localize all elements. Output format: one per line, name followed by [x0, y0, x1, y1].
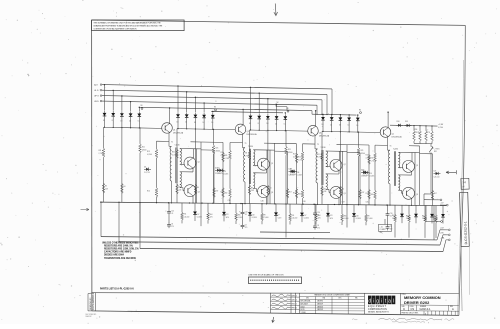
svg-text:T1: T1 [245, 143, 247, 145]
svg-text:CL1,750: CL1,750 [144, 172, 150, 174]
svg-text:C4,D50: C4,D50 [304, 218, 309, 220]
svg-text:R68: R68 [433, 216, 436, 218]
svg-text:1N3209: 1N3209 [317, 309, 323, 311]
svg-text:D5: D5 [211, 122, 213, 124]
svg-text:C68: C68 [179, 189, 182, 191]
svg-text:DEC3009: DEC3009 [301, 304, 308, 306]
svg-text:R21: R21 [216, 148, 219, 150]
svg-text:R11: R11 [292, 215, 295, 217]
svg-text:TRANSISTOR & DIODE CONVERSION: TRANSISTOR & DIODE CONVERSION CHART [314, 294, 350, 297]
svg-text:C,7000: C,7000 [99, 153, 104, 155]
svg-text:D664: D664 [301, 306, 305, 308]
svg-text:CL1,750: CL1,750 [218, 173, 224, 175]
svg-text:8: 8 [400, 176, 401, 178]
svg-text:R60: R60 [225, 193, 228, 195]
svg-text:TRANSISTORS ARE DEC3009: TRANSISTORS ARE DEC3009 [104, 257, 137, 260]
svg-text:8: 8 [181, 173, 182, 175]
svg-text:C8u: C8u [366, 202, 369, 204]
svg-text:D-CS-G202-0-1: D-CS-G202-0-1 [92, 292, 95, 310]
svg-text:D3: D3 [339, 125, 341, 127]
svg-text:Q3: Q3 [416, 194, 418, 196]
svg-text:T-2030: T-2030 [301, 312, 306, 314]
svg-text:4,7000: 4,7000 [438, 127, 443, 129]
svg-text:R17: R17 [216, 190, 219, 192]
svg-text:47000: 47000 [288, 152, 293, 154]
svg-text:2N2894: 2N2894 [317, 301, 323, 303]
svg-text:C68: C68 [324, 191, 327, 193]
svg-text:4,7000: 4,7000 [221, 155, 226, 157]
svg-text:47000: 47000 [216, 151, 221, 153]
svg-text:R13: R13 [221, 152, 224, 154]
svg-text:R9: R9 [264, 215, 266, 217]
svg-text:R11: R11 [184, 214, 187, 216]
svg-text:D17: D17 [197, 214, 200, 216]
svg-text:R16: R16 [297, 172, 300, 174]
svg-text:C11,000: C11,000 [184, 216, 190, 218]
svg-text:D7: D7 [278, 215, 280, 217]
svg-text:C4,000: C4,000 [238, 217, 243, 219]
svg-text:D17: D17 [304, 215, 307, 217]
svg-text:R56: R56 [415, 129, 418, 131]
svg-text:C,7000: C,7000 [317, 157, 322, 159]
svg-text:D5: D5 [284, 123, 286, 125]
svg-text:Q3: Q3 [344, 193, 346, 195]
svg-text:C9: C9 [245, 224, 247, 226]
svg-text:47000: 47000 [361, 153, 366, 155]
svg-text:4S D: 4S D [94, 101, 99, 103]
svg-text:PARTS LIST IS A-PL-G202-0-0: PARTS LIST IS A-PL-G202-0-0 [100, 287, 134, 290]
svg-text:R60: R60 [298, 193, 301, 195]
svg-text:C1,D6X: C1,D6X [223, 174, 228, 176]
svg-text:D23: D23 [330, 215, 333, 217]
svg-text:C4,000: C4,000 [344, 218, 349, 220]
svg-text:DRN: DRN [292, 295, 295, 297]
svg-text:R66: R66 [238, 214, 241, 216]
svg-text:C9: C9 [317, 225, 319, 227]
svg-text:RESISTORS ARE 1/2W, 10W, C%: RESISTORS ARE 1/2W, 10W, C% [104, 248, 139, 251]
svg-text:DRIVER G202: DRIVER G202 [404, 300, 430, 305]
svg-text:G202-0-1: G202-0-1 [420, 307, 432, 311]
svg-text:g: g [376, 298, 379, 304]
svg-text:C8,000: C8,000 [392, 218, 397, 220]
svg-text:D670: D670 [301, 309, 305, 311]
svg-text:T1: T1 [390, 145, 392, 147]
svg-text:D1: D1 [322, 124, 324, 126]
svg-text:D4: D4 [348, 125, 350, 127]
svg-text:D5: D5 [138, 121, 140, 123]
svg-text:5: 5 [181, 149, 182, 151]
svg-text:R17: R17 [434, 193, 437, 195]
svg-text:D18: D18 [252, 214, 255, 216]
svg-text:T-2030: T-2030 [393, 148, 398, 150]
svg-text:Q1: Q1 [247, 131, 249, 133]
svg-text:T-2030: T-2030 [321, 147, 326, 149]
svg-text:C1 MFD: C1 MFD [380, 229, 387, 231]
svg-text:PRINTED CIRCUIT REV.: PRINTED CIRCUIT REV. [402, 312, 419, 314]
svg-text:C8,000: C8,000 [406, 218, 411, 220]
svg-text:C10: C10 [171, 211, 174, 213]
svg-text:4,7000: 4,7000 [147, 154, 152, 156]
svg-text:RESISTORS ARE 1/4W; 5%: RESISTORS ARE 1/4W; 5% [104, 245, 133, 248]
svg-text:D6: D6 [363, 170, 365, 172]
svg-text:R6: R6 [141, 105, 143, 107]
svg-text:D4: D4 [275, 123, 277, 125]
svg-text:UNLESS OTHERWISE INDICATED:: UNLESS OTHERWISE INDICATED: [102, 242, 139, 245]
svg-text:Q3: Q3 [271, 192, 273, 194]
svg-text:2N3009: 2N3009 [317, 304, 323, 306]
svg-text:D23: D23 [226, 214, 229, 216]
svg-text:DIODES ARE D664: DIODES ARE D664 [104, 254, 125, 257]
svg-text:R6: R6 [359, 109, 361, 111]
svg-text:Q1: Q1 [173, 130, 175, 132]
svg-text:270: 270 [317, 228, 320, 230]
svg-text:R3: R3 [179, 187, 181, 189]
svg-text:R31: R31 [172, 151, 175, 153]
svg-text:C87: C87 [342, 201, 345, 203]
svg-text:+2,6V: +2,6V [438, 124, 444, 126]
svg-text:C1,D6X: C1,D6X [369, 176, 374, 178]
svg-text:D2: D2 [330, 124, 332, 126]
svg-text:R14: R14 [221, 192, 224, 194]
svg-text:C11,000: C11,000 [292, 217, 298, 219]
svg-text:R4: R4 [342, 189, 344, 191]
svg-text:CL1,750: CL1,750 [363, 175, 369, 177]
svg-text:R13: R13 [147, 151, 150, 153]
svg-text:Q2: Q2 [344, 164, 346, 166]
svg-text:DEC2894-3A: DEC2894-3A [392, 136, 403, 139]
svg-text:C,7000: C,7000 [225, 158, 230, 160]
svg-text:C4,D50: C4,D50 [197, 216, 202, 218]
svg-text:i: i [381, 298, 382, 304]
svg-text:DEC2894-3A: DEC2894-3A [319, 134, 330, 137]
svg-text:.01: .01 [171, 213, 173, 215]
svg-text:R16: R16 [369, 173, 372, 175]
svg-text:i: i [373, 298, 374, 304]
svg-text:270: 270 [171, 226, 174, 228]
svg-text:R81: R81 [434, 151, 437, 153]
svg-text:R9: R9 [368, 216, 370, 218]
svg-text:CHK: CHK [292, 299, 295, 301]
svg-text:C66: C66 [303, 201, 306, 203]
svg-text:DEC2894-3A: DEC2894-3A [173, 132, 184, 135]
svg-text:D3: D3 [194, 122, 196, 124]
svg-text:R13: R13 [366, 155, 369, 157]
svg-text:D25: D25 [434, 171, 437, 173]
svg-text:47000: 47000 [142, 149, 147, 151]
svg-text:d: d [368, 298, 371, 304]
svg-text:+7 WTD: +7 WTD [434, 149, 440, 151]
svg-text:D2: D2 [185, 122, 187, 124]
svg-text:D3: D3 [120, 120, 122, 122]
svg-text:C10: C10 [390, 213, 393, 215]
svg-text:R3: R3 [105, 186, 107, 188]
svg-text:D-CS-G202-0-1: D-CS-G202-0-1 [463, 221, 468, 244]
svg-text:R4: R4 [197, 187, 199, 189]
svg-text:D1: D1 [177, 121, 179, 123]
svg-text:4,7000: 4,7000 [366, 157, 371, 159]
svg-text:R3: R3 [251, 187, 253, 189]
svg-text:D6: D6 [144, 167, 146, 169]
svg-text:CORPORATION: CORPORATION [368, 308, 387, 311]
svg-text:T-2030: T-2030 [248, 146, 253, 148]
svg-text:R68: R68 [422, 216, 425, 218]
svg-text:R68: R68 [406, 215, 409, 217]
svg-text:D59: D59 [405, 121, 408, 123]
svg-text:R21: R21 [361, 150, 364, 152]
svg-text:4L D: 4L D [94, 90, 99, 92]
svg-text:C10: C10 [245, 211, 248, 213]
svg-text:R60: R60 [371, 194, 374, 196]
svg-text:C4,D50: C4,D50 [252, 217, 257, 219]
svg-text:5: 5 [255, 151, 256, 153]
svg-text:R15: R15 [298, 156, 301, 158]
svg-text:Q2: Q2 [198, 162, 200, 164]
svg-text:-O96: -O96 [440, 233, 444, 235]
svg-text:Q1: Q1 [319, 132, 321, 134]
svg-text:C10: C10 [317, 212, 320, 214]
svg-text:.01: .01 [245, 214, 247, 216]
svg-text:R17: R17 [289, 191, 292, 193]
svg-text:R16: R16 [223, 171, 226, 173]
svg-text:R4: R4 [123, 186, 125, 188]
svg-text:C68: C68 [251, 190, 254, 192]
svg-text:C46: C46 [261, 200, 264, 202]
svg-text:4: 4 [181, 164, 182, 166]
svg-text:D18: D18 [356, 215, 359, 217]
svg-text:C68: C68 [105, 188, 108, 190]
svg-text:DRAWING NO: DRAWING NO [89, 297, 92, 310]
svg-text:4P O: 4P O [94, 95, 99, 97]
svg-text:R17: R17 [362, 192, 365, 194]
svg-text:C,7000: C,7000 [172, 154, 177, 156]
svg-text:5: 5 [327, 152, 328, 154]
svg-text:R3: R3 [324, 188, 326, 190]
svg-text:R31: R31 [245, 153, 248, 155]
svg-text:R6: R6 [214, 107, 216, 109]
svg-text:Q3: Q3 [198, 191, 200, 193]
svg-text:R66: R66 [344, 215, 347, 217]
svg-text:R21: R21 [288, 149, 291, 151]
svg-text:8: 8 [255, 174, 256, 176]
svg-text:R31: R31 [317, 154, 320, 156]
svg-text:C9: C9 [171, 224, 173, 226]
svg-text:-O&T: -O&T [440, 228, 444, 230]
svg-text:T1: T1 [171, 141, 173, 143]
svg-text:+ J5: + J5 [380, 226, 383, 228]
svg-text:C4,D50: C4,D50 [356, 218, 361, 220]
svg-text:D2: D2 [258, 123, 260, 125]
svg-text:USE THE ETCH BOARD OF THE 197: USE THE ETCH BOARD OF THE 1970 [249, 273, 285, 276]
svg-text:A: A [452, 307, 454, 311]
svg-text:DEC2894-3A: DEC2894-3A [247, 133, 258, 136]
svg-text:D1: D1 [249, 123, 251, 125]
svg-text:a: a [388, 298, 391, 304]
svg-text:D58: D58 [397, 121, 400, 123]
svg-text:4,7000: 4,7000 [293, 156, 298, 158]
svg-text:+7: +7 [427, 129, 429, 131]
svg-text:5: 5 [400, 153, 401, 155]
svg-text:CAPACITORS ARE MMFD: CAPACITORS ARE MMFD [104, 251, 132, 254]
svg-text:Q2: Q2 [271, 163, 273, 165]
svg-text:D1: D1 [103, 120, 105, 122]
svg-text:270: 270 [245, 227, 248, 229]
svg-text:R31: R31 [99, 150, 102, 152]
svg-text:Q1: Q1 [392, 134, 394, 136]
svg-text:D3: D3 [266, 123, 268, 125]
svg-text:5470: 5470 [330, 218, 334, 220]
svg-text:D6: D6 [290, 169, 292, 171]
svg-text:R68: R68 [392, 215, 395, 217]
svg-text:D2: D2 [112, 120, 114, 122]
svg-text:CL1,750: CL1,750 [290, 174, 296, 176]
svg-text:C,7000: C,7000 [245, 156, 250, 158]
svg-text:C470: C470 [278, 217, 282, 219]
svg-text:N2: N2 [277, 102, 279, 104]
svg-text:R14: R14 [293, 192, 296, 194]
svg-text:D6: D6 [218, 168, 220, 170]
svg-text:R6: R6 [287, 108, 289, 110]
svg-text:R4: R4 [269, 188, 271, 190]
svg-text:DEC FORM NO: DEC FORM NO [86, 314, 97, 316]
svg-text:1N3606: 1N3606 [317, 306, 323, 308]
svg-text:EQUIPMENT: EQUIPMENT [368, 306, 387, 308]
svg-text:R14: R14 [147, 191, 150, 193]
svg-text:C21,C50: C21,C50 [434, 176, 440, 178]
svg-text:R64: R64 [318, 215, 321, 217]
svg-text:C1,000: C1,000 [264, 217, 269, 219]
svg-text:270: 270 [390, 228, 393, 230]
svg-text:D4: D4 [129, 121, 131, 123]
svg-text:R13: R13 [293, 153, 296, 155]
svg-text:D4: D4 [203, 122, 205, 124]
svg-text:C1,D6X: C1,D6X [297, 175, 302, 177]
svg-text:R21: R21 [142, 146, 145, 148]
svg-text:D5: D5 [356, 125, 358, 127]
svg-text:R64: R64 [210, 214, 213, 216]
svg-text:8: 8 [327, 175, 328, 177]
svg-text:C1,000: C1,000 [368, 218, 373, 220]
svg-text:5470: 5470 [226, 217, 230, 219]
svg-text:R15: R15 [371, 158, 374, 160]
svg-text:T1: T1 [317, 144, 319, 146]
svg-text:A,O: A,O [94, 83, 98, 86]
svg-text:C36: C36 [228, 200, 231, 202]
svg-text:Q2: Q2 [416, 165, 418, 167]
svg-text:R14: R14 [366, 193, 369, 195]
svg-text:l: l [393, 298, 394, 304]
